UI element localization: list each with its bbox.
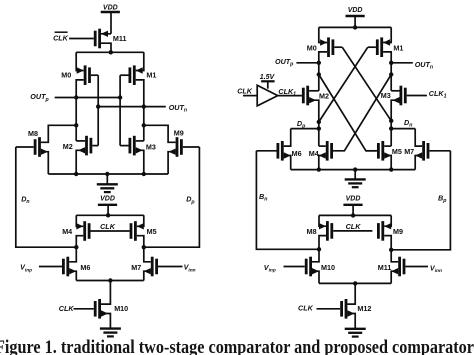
svg-text:M3: M3 — [381, 91, 391, 100]
transistor M3 — [391, 86, 427, 121]
node ground-M3 source — [142, 172, 146, 176]
transistor M10 — [74, 281, 111, 329]
svg-text:M4: M4 — [62, 227, 72, 236]
wire cross-couple column OUTp (M1/M3 gates) — [119, 75, 121, 145]
label CLK-bar (gate of M11) — [53, 32, 69, 42]
svg-text:M7: M7 — [131, 263, 141, 272]
wire Dp column segment — [318, 122, 320, 146]
wire M2 drain column — [75, 98, 77, 141]
VDD supply VDD (left latch) — [101, 4, 120, 12]
svg-text:OUTp: OUTp — [30, 92, 48, 103]
wire buffer output CLK1 — [278, 95, 302, 97]
svg-text:M12: M12 — [357, 304, 371, 313]
node VDD-rail (left input stage) — [106, 213, 110, 217]
wire buffer input — [243, 95, 257, 97]
svg-text:CLK: CLK — [237, 87, 253, 96]
node Dn junction — [389, 126, 393, 130]
wire Bp column (right) — [391, 151, 450, 250]
node OUTp-M0 drain — [74, 95, 78, 99]
svg-text:CLK: CLK — [346, 222, 362, 231]
svg-text:CLK: CLK — [53, 33, 69, 42]
node Dp junction (left) — [142, 245, 146, 249]
transistor M11 — [69, 29, 111, 53]
wire latch source rail (right) — [319, 26, 391, 28]
wire OUTn line (right) — [391, 62, 413, 64]
svg-text:Bp: Bp — [438, 194, 446, 205]
transistor M8 — [16, 125, 76, 174]
svg-text:M1: M1 — [146, 71, 156, 80]
VDD supply VDD (right input stage) — [343, 195, 362, 204]
wire Dp column (left) — [144, 147, 200, 247]
svg-text:CLK1: CLK1 — [429, 89, 447, 100]
svg-text:M2: M2 — [319, 92, 329, 101]
node ground-M4 source (right) — [317, 167, 321, 171]
wire cross-couple diagonal M1 gate to Dp — [319, 47, 368, 122]
wire Dn column segment — [390, 121, 392, 146]
transistor M8 — [319, 215, 332, 249]
buffer supply bar 1.5V — [261, 81, 275, 88]
svg-text:M10: M10 — [321, 263, 335, 272]
transistor M0 — [76, 52, 98, 97]
transistor M5 — [131, 215, 144, 247]
svg-text:OUTn: OUTn — [415, 60, 433, 71]
wire cross-couple diagonal OUTn to M4 gate — [334, 75, 391, 151]
wire Bn column (right) — [256, 151, 319, 250]
wire CLK gate wire M8-M9 — [333, 230, 372, 232]
svg-text:M8: M8 — [307, 227, 317, 236]
transistor M9 — [378, 215, 391, 249]
transistor M1 — [120, 52, 144, 106]
svg-text:VDD: VDD — [100, 195, 115, 202]
node Bp junction (right) — [389, 248, 393, 252]
node ground-M2 source — [74, 172, 78, 176]
wire cross-couple diagonal M0 gate to Dn — [342, 47, 391, 121]
node M3 drain / M9 drain — [142, 123, 146, 127]
svg-text:M10: M10 — [114, 304, 128, 313]
transistor M0 — [319, 27, 342, 62]
svg-text:Vinp: Vinp — [20, 263, 32, 274]
node VDD-rail (right input stage) — [351, 213, 355, 217]
svg-text:Vinn: Vinn — [430, 263, 442, 274]
node ground-M5 source (right) — [389, 167, 393, 171]
svg-text:VDD: VDD — [348, 7, 363, 14]
svg-text:VDD: VDD — [103, 4, 118, 11]
svg-text:M2: M2 — [63, 142, 73, 151]
figure caption — [0, 339, 474, 355]
node VDD-rail (right latch) — [353, 25, 357, 29]
wire M3 drain column — [143, 107, 145, 141]
node ground stub junction (left latch) — [105, 172, 109, 176]
node OUTp diagonal tap — [317, 72, 321, 76]
node Bn junction (right) — [317, 247, 321, 251]
svg-text:M1: M1 — [393, 43, 403, 52]
wire latch ground rail (left) — [48, 173, 168, 175]
transistor M3 — [120, 136, 144, 174]
wire latch source rail (left) — [76, 51, 144, 53]
svg-text:Vinp: Vinp — [264, 263, 276, 274]
svg-text:1.5V: 1.5V — [260, 74, 276, 81]
node ground stub junction (right latch) — [353, 167, 357, 171]
svg-text:M9: M9 — [174, 128, 184, 137]
wire VDD stem (right latch) — [354, 16, 356, 27]
wire ground stub (left latch) — [106, 174, 108, 184]
transistor M1 — [368, 27, 391, 62]
wire OUTp line (left) — [55, 97, 120, 99]
transistor M7 — [144, 247, 183, 280]
wire ground stub (right latch) — [354, 170, 356, 180]
ground right tail — [345, 329, 366, 337]
svg-text:Bn: Bn — [259, 192, 267, 203]
svg-text:Dn: Dn — [404, 118, 412, 129]
ground left tail — [100, 329, 121, 337]
node OUTp (right) — [317, 61, 321, 65]
transistor M5 — [366, 141, 391, 170]
transistor M4 — [319, 141, 335, 170]
wire source rail M4/M5 — [76, 214, 144, 216]
transistor M6 — [39, 247, 76, 280]
wire OUTp line (right) — [296, 62, 318, 64]
wire Dn to M7 drain — [391, 128, 415, 130]
node OUTn diagonal tap — [389, 72, 393, 76]
wire cross-couple diagonal OUTp to M5 gate — [319, 75, 376, 151]
wire VDD stem (right input stage) — [352, 205, 354, 216]
buffer inverter (1.5V clock driver) — [257, 85, 278, 106]
ground right latch — [345, 179, 366, 187]
node tail junction (left) — [108, 278, 112, 282]
VDD supply VDD (left input stage) — [98, 195, 117, 204]
svg-text:M3: M3 — [146, 142, 156, 151]
svg-text:M5: M5 — [147, 227, 157, 236]
wire tail rail (left) — [76, 280, 144, 282]
svg-text:M4: M4 — [309, 149, 319, 158]
transistor M11 — [391, 250, 428, 284]
svg-text:OUTp: OUTp — [275, 57, 293, 68]
node M11 drain junction — [109, 50, 113, 54]
VDD supply VDD (right latch) — [346, 7, 365, 16]
node OUTn (right) — [389, 61, 393, 65]
svg-text:M11: M11 — [378, 263, 392, 272]
transistor M7 — [415, 129, 450, 170]
svg-text:Dn: Dn — [21, 195, 29, 206]
svg-text:CLK: CLK — [298, 303, 314, 312]
node Dn junction (left) — [74, 245, 78, 249]
wire source rail M8/M9 (right) — [319, 214, 391, 216]
wire cross-couple column OUTn (M0/M2 gates) — [97, 75, 99, 145]
wire OUTn line (left) — [98, 106, 166, 108]
wire tail rail (right) — [319, 282, 391, 284]
svg-text:VDD: VDD — [346, 195, 361, 202]
wire latch ground rail (right) — [291, 169, 416, 171]
svg-text:M0: M0 — [307, 43, 317, 52]
node OUTn-M1 drain — [142, 104, 146, 108]
svg-text:M6: M6 — [292, 149, 302, 158]
transistor M2 — [76, 136, 98, 174]
wire Dp to M6 drain — [291, 128, 319, 130]
wire VDD to M11 source — [110, 12, 112, 34]
svg-text:M5: M5 — [392, 147, 402, 156]
node Dp junction — [317, 126, 321, 130]
transistor M4 — [76, 215, 89, 247]
svg-text:M9: M9 — [393, 227, 403, 236]
transistor M12 — [317, 283, 356, 328]
svg-text:M0: M0 — [61, 71, 71, 80]
transistor M10 — [284, 249, 320, 283]
svg-text:M7: M7 — [404, 147, 414, 156]
transistor M6 — [256, 129, 290, 170]
svg-text:M6: M6 — [80, 263, 90, 272]
wire OUTn column segment — [390, 63, 392, 91]
node tail junction (right) — [353, 281, 357, 285]
svg-text:Vinn: Vinn — [184, 263, 196, 274]
node M2 drain / M8 drain — [74, 123, 78, 127]
svg-text:M8: M8 — [28, 129, 38, 138]
node OUTn-M0 gate column — [96, 104, 100, 108]
wire OUTp column segment — [318, 63, 320, 91]
node Dp diagonal junction — [317, 120, 321, 124]
wire Dn column (left) — [16, 147, 76, 247]
transistor M9 — [144, 125, 200, 174]
svg-text:OUTn: OUTn — [169, 103, 187, 114]
wire VDD stem (left input stage) — [107, 205, 109, 216]
ground left latch — [97, 184, 118, 192]
node Dn diagonal junction — [389, 119, 393, 123]
node OUTp-M1 gate — [118, 95, 122, 99]
svg-text:CLK: CLK — [100, 222, 116, 231]
svg-text:M11: M11 — [113, 34, 127, 43]
wire CLK gate wire M4-M5 — [91, 230, 130, 232]
svg-text:CLK: CLK — [59, 304, 75, 313]
svg-text:Dp: Dp — [186, 195, 194, 206]
transistor M2 — [303, 86, 319, 122]
